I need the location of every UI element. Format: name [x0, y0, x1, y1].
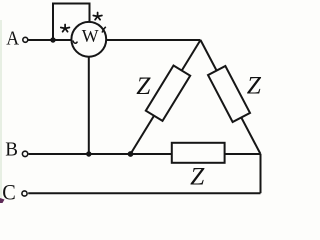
svg-text:Z: Z	[190, 162, 205, 191]
svg-text:W: W	[82, 26, 99, 46]
svg-text:Z: Z	[247, 70, 262, 99]
svg-text:Z: Z	[136, 71, 151, 100]
svg-text:A: A	[6, 27, 19, 49]
svg-text:B: B	[5, 138, 18, 161]
